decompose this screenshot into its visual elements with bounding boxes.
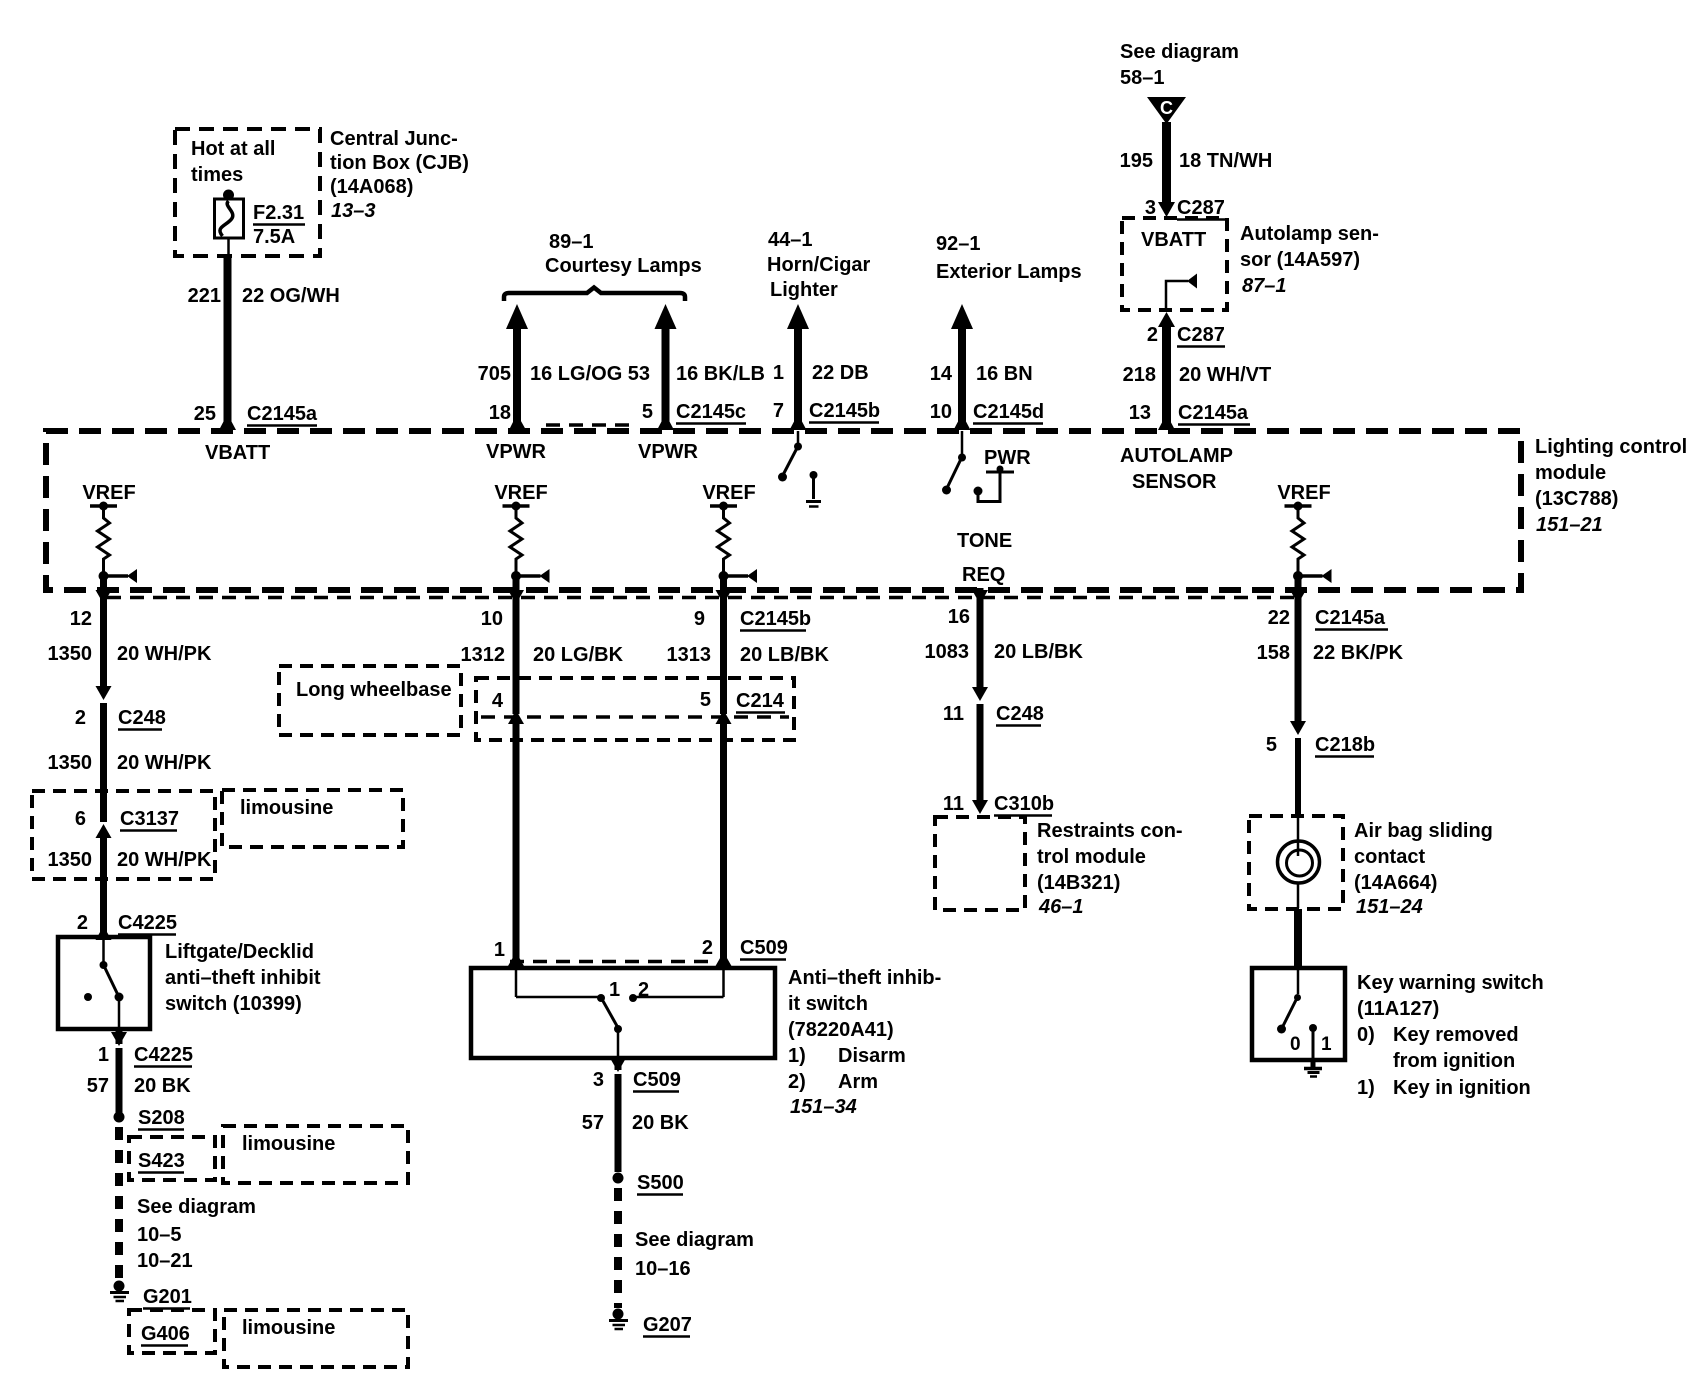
svg-text:C310b: C310b: [994, 793, 1054, 815]
connector 5 C218b: [1266, 721, 1375, 816]
courtesy lamps 89-1 label: [545, 231, 702, 277]
svg-text:VREF: VREF: [702, 482, 755, 504]
svg-text:22 BK/PK: 22 BK/PK: [1313, 642, 1404, 664]
splice S500: [613, 1172, 684, 1195]
svg-text:1350: 1350: [48, 643, 93, 665]
svg-text:it switch: it switch: [788, 993, 868, 1015]
node PWR: [974, 447, 1032, 502]
central junction box CJB: [175, 129, 320, 256]
svg-text:87–1: 87–1: [1242, 275, 1287, 297]
svg-text:58–1: 58–1: [1120, 67, 1165, 89]
svg-text:(14A068): (14A068): [330, 176, 413, 198]
svg-text:10–5: 10–5: [137, 1224, 182, 1246]
svg-text:(78220A41): (78220A41): [788, 1019, 894, 1041]
svg-text:from ignition: from ignition: [1393, 1050, 1515, 1072]
connector 1 C4225: [98, 1029, 193, 1067]
connector C214 box: [476, 678, 794, 740]
svg-text:Horn/Cigar: Horn/Cigar: [767, 254, 871, 276]
courtesy lamps bracket: [504, 288, 685, 302]
svg-text:195: 195: [1120, 150, 1153, 172]
key warning switch 11A127: [1252, 968, 1345, 1060]
svg-text:3: 3: [1145, 197, 1156, 219]
svg-text:20 LG/BK: 20 LG/BK: [533, 644, 624, 666]
svg-text:switch (10399): switch (10399): [165, 993, 302, 1015]
svg-text:C2145c: C2145c: [676, 401, 746, 423]
svg-text:1350: 1350: [48, 752, 93, 774]
svg-text:10–16: 10–16: [635, 1258, 691, 1280]
dashed wire to G201: [115, 1127, 123, 1280]
splice S208: [114, 1107, 185, 1130]
ground contact inside module (pin 7 switch): [806, 471, 821, 507]
svg-text:57: 57: [582, 1112, 604, 1134]
wire 14 16 BN (arrow up to 92-1): [930, 304, 1033, 429]
svg-text:Key warning switch: Key warning switch: [1357, 972, 1544, 994]
wire 1313 20 LB/BK: [667, 644, 830, 666]
lighting control module box: [46, 431, 1521, 590]
ground G406 (limousine): [129, 1310, 215, 1353]
svg-text:VREF: VREF: [82, 482, 135, 504]
pin 7 C2145b: [773, 400, 880, 430]
svg-text:1: 1: [1321, 1034, 1332, 1055]
svg-text:18 TN/WH: 18 TN/WH: [1179, 150, 1272, 172]
pin 2 C287: [1147, 312, 1225, 347]
svg-text:25: 25: [194, 403, 216, 425]
wire 218 20 WH/VT: [1123, 325, 1272, 429]
svg-text:5: 5: [1266, 734, 1277, 756]
svg-text:22 DB: 22 DB: [812, 362, 869, 384]
svg-text:Key removed: Key removed: [1393, 1024, 1519, 1046]
anti-theft inhibit switch 78220A41: [471, 968, 775, 1058]
svg-text:VBATT: VBATT: [1141, 229, 1206, 251]
svg-text:Liftgate/Decklid: Liftgate/Decklid: [165, 941, 314, 963]
pin 9 C2145b: [694, 578, 811, 714]
svg-text:7: 7: [773, 400, 784, 422]
VREF resistor (pin 22): [1277, 482, 1331, 583]
wire 705 16 LG/OG (arrow up to 89-1): [478, 304, 623, 429]
wire 57 20 BK (left): [87, 1048, 191, 1114]
svg-text:C: C: [1160, 98, 1173, 118]
svg-text:20 WH/PK: 20 WH/PK: [117, 752, 212, 774]
connector 2 C4225: [77, 912, 177, 940]
svg-text:6: 6: [75, 808, 86, 830]
connector triangle C: [1147, 97, 1186, 124]
ground G207: [609, 1309, 692, 1337]
svg-text:1312: 1312: [461, 644, 506, 666]
svg-text:C2145a: C2145a: [1315, 607, 1386, 629]
svg-text:1: 1: [494, 939, 505, 961]
svg-text:S500: S500: [637, 1172, 684, 1194]
pin 13 C2145a: [1129, 402, 1250, 430]
svg-text:1): 1): [788, 1045, 806, 1067]
dashed wire to G207: [614, 1188, 622, 1308]
svg-text:Restraints con-: Restraints con-: [1037, 820, 1183, 842]
svg-text:C2145a: C2145a: [247, 403, 318, 425]
autolamp sensor VBATT box: [1122, 218, 1227, 310]
svg-text:tion Box (CJB): tion Box (CJB): [330, 152, 469, 174]
svg-text:2: 2: [1147, 324, 1158, 346]
see diagram 10-5 10-21 label: [137, 1196, 256, 1272]
pin 3 C287: [1145, 197, 1225, 220]
svg-text:20 LB/BK: 20 LB/BK: [994, 641, 1083, 663]
svg-text:3: 3: [593, 1069, 604, 1091]
svg-text:S208: S208: [138, 1107, 185, 1129]
pin 10: [481, 578, 524, 714]
switch inside module at pin 10 (exterior lamps): [942, 431, 966, 495]
svg-text:G406: G406: [141, 1323, 190, 1345]
svg-text:Exterior Lamps: Exterior Lamps: [936, 261, 1082, 283]
fuse F2.31 7.5A: [215, 190, 306, 257]
VREF resistor (pin 10): [494, 482, 549, 583]
svg-text:Long wheelbase: Long wheelbase: [296, 679, 452, 701]
svg-text:C509: C509: [633, 1069, 681, 1091]
exterior lamps 92-1 label: [936, 233, 1082, 283]
svg-text:2): 2): [788, 1071, 806, 1093]
svg-text:1083: 1083: [925, 641, 970, 663]
svg-text:C2145b: C2145b: [809, 400, 880, 422]
horn/cigar lighter 44-1 label: [767, 229, 871, 301]
svg-text:F2.31: F2.31: [253, 202, 304, 224]
svg-text:TONE: TONE: [957, 530, 1012, 552]
svg-text:92–1: 92–1: [936, 233, 981, 255]
svg-text:(14B321): (14B321): [1037, 872, 1120, 894]
long wheelbase label box: [279, 666, 461, 735]
node TONE REQ: [957, 530, 1012, 586]
svg-text:221: 221: [188, 285, 221, 307]
svg-text:53: 53: [628, 363, 650, 385]
wire 1350 20 WH/PK (middle): [48, 752, 213, 774]
svg-text:2: 2: [702, 937, 713, 959]
svg-text:10: 10: [930, 401, 952, 423]
restraints control module box: [935, 817, 1025, 910]
wire to key warning switch: [1294, 909, 1302, 970]
pin 18: [489, 402, 526, 430]
svg-text:1: 1: [609, 979, 620, 1001]
svg-text:G201: G201: [143, 1286, 192, 1308]
svg-text:1313: 1313: [667, 644, 712, 666]
svg-text:2: 2: [638, 979, 649, 1001]
svg-text:20 WH/PK: 20 WH/PK: [117, 849, 212, 871]
svg-text:REQ: REQ: [962, 564, 1005, 586]
limousine connector box 6 C3137: [32, 791, 215, 936]
svg-text:times: times: [191, 164, 243, 186]
svg-text:Disarm: Disarm: [838, 1045, 906, 1067]
svg-text:limousine: limousine: [242, 1133, 335, 1155]
svg-text:46–1: 46–1: [1038, 896, 1084, 918]
pin 5 C2145c: [642, 401, 746, 430]
node AUTOLAMP SENSOR: [1120, 445, 1233, 493]
svg-text:13–3: 13–3: [331, 200, 376, 222]
svg-text:11: 11: [943, 793, 964, 815]
svg-text:Hot at all: Hot at all: [191, 138, 275, 160]
wire 195 18 TN/WH: [1120, 122, 1273, 203]
svg-text:S423: S423: [138, 1150, 185, 1172]
svg-text:20 WH/PK: 20 WH/PK: [117, 643, 212, 665]
svg-text:C218b: C218b: [1315, 734, 1375, 756]
svg-text:16: 16: [948, 606, 970, 628]
svg-text:7.5A: 7.5A: [253, 226, 295, 248]
VREF resistor (pin 9): [702, 482, 757, 583]
svg-text:(13C788): (13C788): [1535, 488, 1618, 510]
svg-text:limousine: limousine: [240, 797, 333, 819]
restraints control module name label: [1037, 820, 1183, 918]
svg-text:(14A664): (14A664): [1354, 872, 1437, 894]
svg-text:Anti–theft inhib-: Anti–theft inhib-: [788, 967, 941, 989]
svg-text:C287: C287: [1177, 324, 1225, 346]
svg-text:57: 57: [87, 1075, 109, 1097]
pin 12: [70, 578, 112, 688]
svg-text:151–21: 151–21: [1536, 514, 1603, 536]
liftgate/decklid anti-theft inhibit switch 10399: [58, 937, 321, 1029]
svg-text:5: 5: [642, 401, 653, 423]
svg-text:C2145d: C2145d: [973, 401, 1044, 423]
svg-text:151–34: 151–34: [790, 1096, 857, 1118]
svg-text:2: 2: [75, 707, 86, 729]
svg-text:Arm: Arm: [838, 1071, 878, 1093]
svg-text:4: 4: [492, 690, 504, 712]
svg-text:1): 1): [1357, 1077, 1375, 1099]
ground G201: [110, 1281, 192, 1309]
svg-text:C248: C248: [996, 703, 1044, 725]
connector pin 4 arrow: [508, 710, 524, 958]
svg-text:C287: C287: [1177, 197, 1225, 219]
svg-text:1: 1: [773, 362, 784, 384]
svg-text:16 BN: 16 BN: [976, 363, 1033, 385]
VREF resistor (pin 12): [82, 482, 137, 583]
switch inside module at pin 7: [778, 431, 802, 482]
svg-text:VREF: VREF: [494, 482, 547, 504]
svg-text:44–1: 44–1: [768, 229, 813, 251]
connector pin 5 arrow: [716, 710, 732, 958]
svg-text:20 BK: 20 BK: [632, 1112, 689, 1134]
wire 158 22 BK/PK: [1257, 642, 1404, 664]
connector 11 C248: [943, 687, 1044, 800]
svg-text:218: 218: [1123, 364, 1156, 386]
svg-text:C4225: C4225: [134, 1044, 193, 1066]
svg-text:10: 10: [481, 608, 503, 630]
svg-text:0: 0: [1290, 1034, 1301, 1055]
wire 1350 20 WH/PK (upper): [48, 643, 213, 665]
svg-text:0): 0): [1357, 1024, 1375, 1046]
svg-text:151–24: 151–24: [1356, 896, 1423, 918]
svg-text:16 LG/OG: 16 LG/OG: [530, 363, 622, 385]
svg-text:C2145a: C2145a: [1178, 402, 1249, 424]
svg-text:158: 158: [1257, 642, 1290, 664]
svg-text:G207: G207: [643, 1314, 692, 1336]
svg-text:See diagram: See diagram: [137, 1196, 256, 1218]
svg-text:16 BK/LB: 16 BK/LB: [676, 363, 765, 385]
limousine label box (G406): [224, 1310, 408, 1367]
key warning switch name label: [1357, 972, 1544, 1099]
air bag sliding contact box: [1249, 816, 1343, 909]
connector 2 C248: [75, 686, 166, 822]
connector 1 / 2 C509: [494, 937, 788, 966]
svg-text:5: 5: [700, 689, 711, 711]
svg-text:anti–theft inhibit: anti–theft inhibit: [165, 967, 321, 989]
svg-text:VPWR: VPWR: [486, 441, 547, 463]
svg-text:sor (14A597): sor (14A597): [1240, 249, 1360, 271]
wire 1083 20 LB/BK: [925, 641, 1084, 663]
svg-text:22: 22: [1268, 607, 1290, 629]
svg-text:Courtesy Lamps: Courtesy Lamps: [545, 255, 702, 277]
svg-text:20 WH/VT: 20 WH/VT: [1179, 364, 1271, 386]
svg-text:Lighter: Lighter: [770, 279, 838, 301]
pin 22 C2145a: [1268, 578, 1388, 722]
wire 1 22 DB (arrow up to 44-1): [773, 304, 869, 429]
lighting control module name label: [1535, 436, 1687, 536]
svg-text:VBATT: VBATT: [205, 442, 270, 464]
svg-text:VPWR: VPWR: [638, 441, 699, 463]
see diagram 58-1 label: [1120, 41, 1239, 89]
ground below key warning switch: [1304, 1060, 1322, 1077]
svg-text:trol module: trol module: [1037, 846, 1146, 868]
svg-text:13: 13: [1129, 402, 1151, 424]
svg-text:1350: 1350: [48, 849, 93, 871]
svg-text:14: 14: [930, 363, 953, 385]
svg-text:20 BK: 20 BK: [134, 1075, 191, 1097]
autolamp sensor internal contact: [1166, 274, 1197, 311]
svg-text:Autolamp sen-: Autolamp sen-: [1240, 223, 1379, 245]
wire 53 16 BK/LB (arrow up to 89-1): [628, 304, 765, 429]
svg-text:See diagram: See diagram: [635, 1229, 754, 1251]
svg-text:AUTOLAMP: AUTOLAMP: [1120, 445, 1233, 467]
connector C2145c double-dash segment: [546, 423, 633, 427]
wire 221 22 OG/WH: [188, 256, 340, 429]
svg-text:C214: C214: [736, 690, 785, 712]
svg-text:705: 705: [478, 363, 511, 385]
svg-text:9: 9: [694, 608, 705, 630]
air bag sliding contact name label: [1354, 820, 1493, 918]
svg-text:module: module: [1535, 462, 1606, 484]
svg-text:22 OG/WH: 22 OG/WH: [242, 285, 340, 307]
svg-text:10–21: 10–21: [137, 1250, 193, 1272]
svg-text:C2145b: C2145b: [740, 608, 811, 630]
pin 25 C2145a: [194, 403, 318, 430]
svg-text:18: 18: [489, 402, 511, 424]
svg-text:SENSOR: SENSOR: [1132, 471, 1217, 493]
limousine label box (C3137): [222, 790, 403, 847]
svg-text:Lighting control: Lighting control: [1535, 436, 1687, 458]
svg-text:C509: C509: [740, 937, 788, 959]
svg-text:See diagram: See diagram: [1120, 41, 1239, 63]
autolamp sensor name label: [1240, 223, 1379, 297]
connector 11 C310b: [943, 793, 1054, 816]
anti-theft inhibit switch name label: [788, 967, 941, 1118]
svg-text:C248: C248: [118, 707, 166, 729]
svg-text:C4225: C4225: [118, 912, 177, 934]
module connector second dashed line: [107, 596, 1300, 600]
CJB name label: [330, 128, 469, 222]
svg-text:PWR: PWR: [984, 447, 1031, 469]
limousine label box (S423): [223, 1126, 408, 1183]
svg-text:20 LB/BK: 20 LB/BK: [740, 644, 829, 666]
svg-text:2: 2: [77, 912, 88, 934]
connector 3 C509: [593, 1058, 681, 1092]
svg-text:contact: contact: [1354, 846, 1425, 868]
svg-text:Central Junc-: Central Junc-: [330, 128, 458, 150]
svg-text:C3137: C3137: [120, 808, 179, 830]
svg-text:(11A127): (11A127): [1357, 998, 1439, 1020]
svg-text:Key in ignition: Key in ignition: [1393, 1077, 1531, 1099]
wire 57 20 BK (middle): [582, 1074, 689, 1172]
svg-text:1: 1: [98, 1044, 109, 1066]
svg-text:89–1: 89–1: [549, 231, 594, 253]
see diagram 10-16 label: [635, 1229, 754, 1280]
svg-text:limousine: limousine: [242, 1317, 335, 1339]
svg-text:12: 12: [70, 608, 92, 630]
svg-text:VREF: VREF: [1277, 482, 1330, 504]
svg-text:Air bag sliding: Air bag sliding: [1354, 820, 1493, 842]
svg-text:11: 11: [943, 703, 964, 725]
pin 10 C2145d: [930, 401, 1044, 430]
pin 16: [948, 588, 988, 688]
wire 1312 20 LG/BK: [461, 644, 624, 666]
splice S423 (limousine): [129, 1137, 215, 1180]
